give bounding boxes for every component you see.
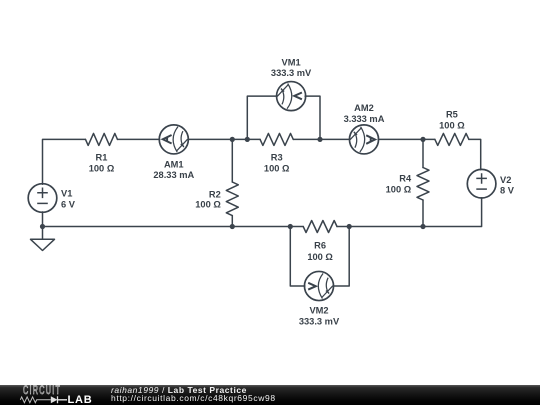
- voltmeter VM1: [277, 82, 306, 111]
- resistor R4: [417, 168, 429, 200]
- svg-text:V2: V2: [500, 175, 511, 185]
- resistor R1: [86, 133, 118, 145]
- svg-text:333.3 mV: 333.3 mV: [299, 316, 340, 326]
- wire R5 to V2 top: [469, 139, 481, 169]
- svg-text:R4: R4: [399, 174, 412, 184]
- svg-text:100 Ω: 100 Ω: [264, 164, 290, 174]
- svg-text:100 Ω: 100 Ω: [386, 185, 412, 195]
- junction R4 bottom: [420, 224, 425, 229]
- svg-text:100 Ω: 100 Ω: [307, 252, 333, 262]
- wire R2 bottom lead: [231, 216, 233, 227]
- CircuitLab logo CIRCUIT text: [23, 384, 61, 397]
- wire R4 bottom lead: [422, 200, 424, 227]
- svg-text:AM2: AM2: [354, 103, 374, 113]
- wire VM2 left lead: [290, 227, 305, 287]
- junction VM1 left: [245, 137, 250, 142]
- wire bottom bus V1 to R6: [43, 226, 304, 228]
- wire R1 to AM1: [118, 138, 160, 140]
- wire bottom bus R6 to V2 bottom: [337, 198, 482, 227]
- resistor R6: [303, 221, 337, 233]
- svg-text:333.3 mV: 333.3 mV: [271, 68, 312, 78]
- resistor R2: [226, 182, 238, 216]
- svg-text:R5: R5: [446, 110, 458, 120]
- svg-text:100 Ω: 100 Ω: [439, 121, 465, 131]
- wire V1 bottom to ground node: [42, 212, 44, 227]
- svg-text:6 V: 6 V: [61, 199, 76, 209]
- svg-text:V1: V1: [61, 189, 72, 199]
- resistor R5: [435, 133, 469, 145]
- svg-text:VM2: VM2: [309, 306, 328, 316]
- junction V1 bottom: [40, 224, 45, 229]
- wire AM1 to R3: [188, 138, 260, 140]
- footer url line: [111, 393, 276, 403]
- wire R2 top lead: [231, 139, 233, 182]
- svg-text:R2: R2: [209, 190, 221, 200]
- wire AM2 to R5: [378, 138, 435, 140]
- junction R4 top: [420, 137, 425, 142]
- wire R3 to AM2: [293, 138, 350, 140]
- junction VM2 left: [288, 224, 293, 229]
- voltmeter VM2: [304, 271, 333, 300]
- ammeter AM2: [349, 125, 378, 154]
- svg-text:100 Ω: 100 Ω: [195, 200, 221, 210]
- junction R2 bottom: [230, 224, 235, 229]
- CircuitLab logo LAB text: [68, 394, 93, 405]
- wire R4 top lead: [422, 139, 424, 167]
- wire VM2 right lead: [333, 227, 349, 287]
- svg-text:R1: R1: [96, 153, 108, 163]
- svg-text:3.333 mA: 3.333 mA: [344, 114, 385, 124]
- wire V1 top to R1: [43, 139, 86, 184]
- voltage source V2: [467, 169, 496, 198]
- svg-text:28.33 mA: 28.33 mA: [153, 170, 194, 180]
- wire VM1 right lead: [305, 96, 320, 139]
- CircuitLab logo resistor wire and diode: [18, 395, 93, 405]
- svg-text:AM1: AM1: [164, 159, 184, 169]
- voltage source V1: [28, 184, 57, 213]
- footer title line: [111, 385, 247, 395]
- ammeter AM1: [159, 125, 188, 154]
- svg-text:8 V: 8 V: [500, 186, 515, 196]
- svg-text:R6: R6: [314, 240, 326, 250]
- junction R2 top: [230, 137, 235, 142]
- svg-text:R3: R3: [271, 153, 283, 163]
- ground: [31, 227, 55, 251]
- junction VM1 right: [317, 137, 322, 142]
- wire VM1 left lead: [247, 96, 277, 139]
- junction VM2 right: [347, 224, 352, 229]
- resistor R3: [260, 133, 293, 145]
- svg-text:100 Ω: 100 Ω: [89, 164, 115, 174]
- svg-text:VM1: VM1: [282, 58, 301, 68]
